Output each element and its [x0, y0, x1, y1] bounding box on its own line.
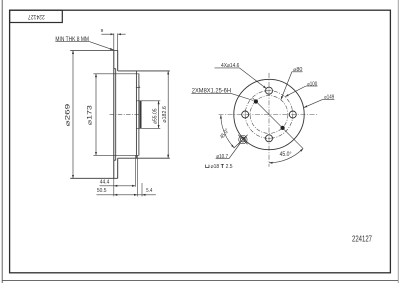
dim dia173 line: [95, 74, 97, 156]
hole cross line 1: [238, 135, 247, 144]
weld tick on hat wall: [136, 87, 140, 89]
outer border right: [397, 0, 399, 283]
centerline section view: [110, 113, 143, 115]
svg-text:⌀182.6: ⌀182.6: [162, 106, 168, 123]
svg-text:⌀149: ⌀149: [324, 95, 334, 101]
svg-text:224127: 224127: [27, 13, 44, 19]
ring bottom edge + dia269 bottom tick: [70, 177, 118, 179]
bolt hole right: [289, 111, 296, 118]
angle arc left 45: [221, 115, 234, 148]
dim 9 left line: [101, 33, 114, 35]
counterbore symbol: [206, 165, 209, 168]
hub pad dark bar: [140, 101, 142, 129]
ext below 50.5 right: [137, 156, 139, 197]
MIN THK leader: [89, 42, 113, 50]
bolt hole top: [266, 87, 273, 94]
hole cross line 2: [238, 135, 247, 144]
MIN THK underline: [55, 41, 89, 43]
ext below left face: [113, 178, 115, 196]
ring notch lower: [114, 159, 116, 161]
svg-text:9: 9: [101, 28, 104, 34]
svg-text:45.0°: 45.0°: [280, 152, 292, 158]
label dia10.7 underline: [216, 158, 229, 160]
circle dia100 bolt circle: [245, 91, 293, 139]
M8 thread SE: [281, 126, 285, 130]
radial line to small hole: [234, 137, 246, 149]
label dia10.7 leader: [229, 143, 241, 159]
angle arc bottom 45: [269, 149, 303, 163]
hub pad bore top edge + dia55.05 tick: [136, 100, 160, 102]
svg-text:⌀173: ⌀173: [88, 104, 94, 125]
label 2XM8 leader: [231, 93, 253, 100]
hat wall inner: [138, 74, 140, 156]
ring left face: [113, 51, 115, 179]
svg-text:50.5: 50.5: [97, 188, 107, 194]
ext below 44.4 right: [134, 156, 136, 187]
svg-text:44.4: 44.4: [100, 180, 110, 186]
diagonal axis NW-SE: [253, 98, 304, 149]
bolt hole bottom: [266, 135, 273, 142]
svg-text:5.4: 5.4: [146, 188, 153, 194]
dim 5.4 left arrow: [142, 194, 149, 196]
dim 9 ext right: [117, 33, 119, 50]
dim dia55.05 line: [158, 101, 160, 129]
svg-text:224127: 224127: [352, 233, 372, 243]
tick left hole: [244, 110, 246, 119]
ring right face upper: [117, 51, 119, 71]
svg-text:T: T: [221, 164, 225, 170]
title box top-left: [10, 10, 63, 22]
dim 50.5 left arrow: [114, 194, 121, 196]
tick right hole: [292, 110, 294, 119]
svg-text:2.5: 2.5: [226, 164, 233, 170]
small hole dia10.7: [241, 137, 246, 142]
tick top hole: [264, 90, 273, 92]
hat top face + dia173 extension top: [93, 73, 139, 75]
ring right face lower: [117, 158, 119, 178]
dim 9 ext left: [113, 33, 115, 50]
horizontal centerline: [219, 114, 318, 116]
bolt hole left: [242, 111, 249, 118]
svg-text:⌀269: ⌀269: [66, 103, 72, 127]
ring top edge + dia269 top tick: [70, 50, 118, 52]
label 4X dia14.6 underline: [215, 67, 240, 69]
dim 44.4 left arrow: [114, 185, 121, 187]
M8 thread NW: [254, 99, 258, 103]
label dia149 leader: [304, 99, 323, 107]
dim 50.5/5.4 line: [97, 194, 156, 196]
dim 9 right line: [118, 33, 126, 35]
label 2XM8 underline: [191, 92, 231, 94]
ext below 5.4 right: [141, 183, 143, 196]
svg-text:⌀18: ⌀18: [211, 164, 220, 170]
dim 50.5 right arrow: [130, 194, 138, 196]
svg-text:⌀100: ⌀100: [307, 81, 317, 87]
tick bottom hole: [264, 137, 273, 139]
svg-text:4X⌀14.6: 4X⌀14.6: [221, 63, 239, 69]
hat step vertical lower: [135, 155, 137, 158]
dim dia269 line: [72, 51, 74, 179]
weld tick stub: [138, 85, 140, 87]
label dia149 underline: [323, 98, 335, 100]
outer border bottom: [2, 280, 398, 282]
hat bottom face + dia173 extension bottom: [93, 154, 139, 156]
hat top edge + dia182.6 top tick: [118, 70, 170, 72]
hat step vertical upper: [135, 71, 137, 74]
hat bottom edge + dia182.6 bottom tick: [118, 157, 170, 159]
circle dia80: [250, 96, 288, 134]
label dia100 underline: [306, 85, 318, 87]
hat wall outer: [135, 74, 137, 156]
label 4X dia14.6 leader: [239, 68, 266, 89]
label dia80 leader: [281, 72, 292, 100]
hub pad bore bottom edge + dia55.05 tick: [136, 127, 160, 129]
ring friction inner line: [115, 69, 117, 161]
dim 44.4 line: [100, 185, 136, 187]
outer border left: [1, 0, 3, 283]
label dia100 leader: [285, 86, 306, 97]
svg-text:⌀80: ⌀80: [293, 67, 302, 73]
circle dia149: [234, 79, 304, 149]
counterbore dia18: [239, 135, 247, 143]
svg-text:⌀55.05: ⌀55.05: [153, 109, 159, 125]
label dia80 underline: [292, 71, 303, 73]
ring notch upper: [114, 68, 116, 70]
dim dia182.6 line: [167, 71, 169, 158]
vertical centerline: [268, 73, 270, 167]
